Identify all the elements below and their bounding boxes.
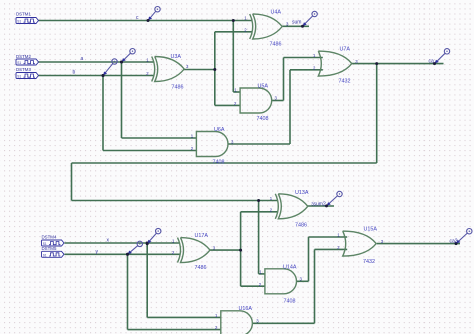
wire carry to U14A pin1 vertical: [258, 201, 260, 274]
wire U16A-U15A vertical: [314, 249, 316, 323]
probe marker on x: [149, 233, 157, 242]
wire s1 vertical: [214, 32, 216, 106]
wire U14A pin1: [259, 273, 265, 275]
svg-text:7486: 7486: [295, 222, 307, 228]
svg-text:7486: 7486: [195, 265, 207, 271]
wire U15A pin2: [315, 248, 348, 250]
svg-text:7408: 7408: [284, 298, 296, 304]
wire s1 to U4A pin2: [215, 31, 252, 33]
svg-text:DSTM5: DSTM5: [42, 246, 57, 251]
wire U17A out: [210, 249, 241, 251]
xor gate U17A 7486: [178, 238, 181, 263]
wire U3A out: [183, 69, 215, 71]
svg-text:b: b: [73, 70, 76, 76]
svg-text:S1: S1: [43, 253, 47, 257]
svg-text:U6A: U6A: [214, 127, 225, 133]
svg-text:U4A: U4A: [271, 10, 282, 16]
wire y: [65, 253, 181, 255]
junction s2 node: [239, 249, 242, 252]
svg-text:7432: 7432: [363, 259, 375, 265]
wire s2 to U13A pin2: [241, 211, 278, 213]
svg-text:S1: S1: [17, 75, 21, 79]
wire ca out: [352, 63, 444, 65]
wire a to U6A pin1 vertical: [121, 62, 123, 138]
junction s1 node: [213, 68, 216, 71]
wire U16A pin2: [128, 329, 221, 331]
wire carry down vertical: [376, 64, 378, 163]
wire a to U6A pin1: [122, 137, 197, 139]
svg-text:sum2: sum2: [314, 201, 326, 207]
probe marker on c: [149, 11, 155, 18]
probe marker on y: [129, 246, 138, 253]
junction c / U5A: [232, 19, 235, 22]
xor gate U13A 7486: [275, 194, 278, 219]
wire sum out: [282, 25, 309, 27]
svg-text:U5A: U5A: [258, 84, 269, 90]
svg-text:a: a: [81, 56, 84, 62]
wire U14A out: [296, 280, 308, 282]
wire c to U5A pin1: [233, 91, 240, 93]
svg-text:DSTM4: DSTM4: [42, 235, 57, 240]
svg-text:7486: 7486: [270, 42, 282, 48]
wire U6A out: [228, 143, 291, 145]
and gate U14A 7408: [265, 269, 297, 294]
svg-text:S1: S1: [17, 20, 21, 24]
wire c to U5A pin1 vertical: [232, 21, 234, 93]
wire c: [39, 20, 253, 22]
wire s2 to U14A pin2: [241, 285, 265, 287]
wire a: [39, 61, 155, 63]
wire U15A pin1: [309, 236, 348, 238]
junction carry / U14A: [257, 199, 260, 202]
wire ca2 out: [377, 243, 460, 245]
junction b / U6A: [102, 74, 105, 77]
and gate U6A 7408: [196, 132, 228, 157]
svg-text:U13A: U13A: [295, 190, 309, 196]
wire x to U16A pin1 vertical: [146, 243, 148, 317]
svg-text:7432: 7432: [339, 79, 351, 85]
probe marker on b: [104, 64, 112, 74]
probe marker on sum: [304, 16, 313, 25]
xor gate U3A 7486: [152, 57, 155, 82]
svg-text:DSTM1: DSTM1: [16, 12, 31, 17]
and gate U16A 7408: [221, 311, 253, 334]
svg-text:U7A: U7A: [340, 47, 351, 53]
svg-text:U17A: U17A: [195, 233, 209, 239]
wire U14A-U15A vertical: [308, 237, 310, 281]
or gate U15A 7432: [343, 231, 377, 256]
probe marker on ca: [436, 53, 445, 62]
wire carry to U13A pin1: [72, 200, 278, 202]
or gate U7A 7432: [318, 51, 352, 76]
svg-text:S1: S1: [17, 61, 21, 65]
wire carry feedback: [72, 162, 377, 164]
svg-text:DSTM3: DSTM3: [16, 67, 31, 72]
wire y to U16A pin2 vertical: [127, 254, 129, 329]
wire U7A pin1: [284, 57, 323, 59]
wire U6A-U7A vertical: [289, 70, 291, 144]
svg-text:U3A: U3A: [171, 54, 182, 60]
svg-text:7408: 7408: [213, 159, 225, 165]
wire b to U6A pin2: [103, 150, 196, 152]
probe marker on sum2: [328, 196, 337, 205]
xor gate U4A 7486: [250, 14, 253, 39]
wire U7A pin2: [290, 69, 323, 71]
wire x: [65, 242, 181, 244]
svg-text:U16A: U16A: [239, 306, 253, 312]
wire s2 vertical: [240, 212, 242, 286]
svg-text:ca: ca: [429, 59, 435, 65]
wire s1 to U5A pin2: [215, 104, 240, 106]
probe marker on ca2: [458, 233, 468, 242]
probe marker on a: [123, 53, 130, 60]
wire U5A-U7A vertical: [283, 58, 285, 101]
wire b: [39, 75, 155, 77]
wire b to U6A pin2 vertical: [102, 76, 104, 151]
svg-text:7408: 7408: [257, 116, 269, 122]
svg-text:7486: 7486: [172, 85, 184, 91]
svg-text:sum: sum: [292, 19, 301, 25]
wire U16A pin1: [147, 316, 221, 318]
svg-text:U15A: U15A: [364, 227, 378, 233]
svg-text:ca2: ca2: [450, 239, 458, 245]
wire U5A out: [272, 100, 284, 102]
svg-text:DSTM2: DSTM2: [16, 54, 31, 59]
junction y / U16A: [126, 253, 129, 256]
svg-text:U14A: U14A: [283, 264, 297, 270]
wire U16A out: [253, 322, 315, 324]
junction ca node: [375, 62, 378, 65]
wire carry left vertical: [71, 163, 73, 201]
and gate U5A 7408: [240, 88, 272, 113]
junction a / U6A: [120, 61, 123, 64]
wire sum2 out: [307, 205, 334, 207]
junction x / U16A: [146, 242, 149, 245]
